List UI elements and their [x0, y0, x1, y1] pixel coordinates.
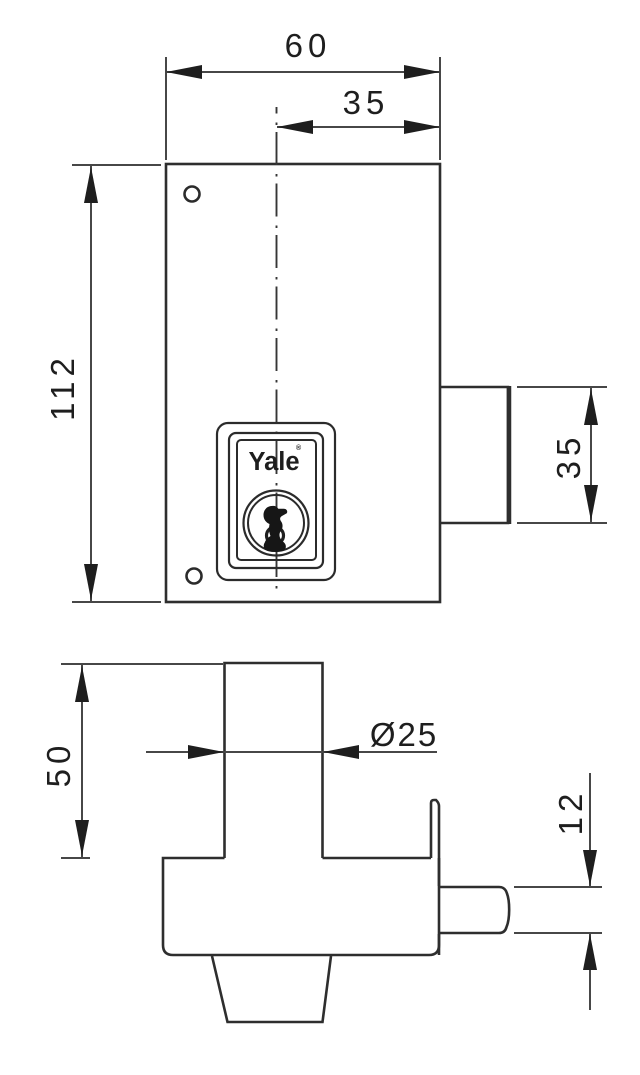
svg-text:35: 35	[343, 84, 390, 121]
dimension diameter 25: line	[146, 751, 437, 753]
side view cylinder tube	[225, 663, 323, 858]
svg-text:50: 50	[40, 741, 77, 788]
Yale plate inner	[237, 440, 316, 560]
dimension 112: line	[90, 166, 92, 601]
dimension diameter 25: left arrow	[188, 745, 224, 759]
svg-text:Ø25: Ø25	[370, 716, 438, 753]
latch bolt face (thick edge)	[507, 386, 512, 524]
dimension 35 top: line	[277, 126, 440, 128]
cylinder inner circle	[248, 495, 304, 551]
svg-text:®: ®	[296, 444, 302, 452]
dimension 112: extension lines	[72, 164, 161, 166]
dimension 12: lower line	[589, 934, 591, 1010]
side view body	[163, 858, 439, 955]
side view body top edge right segment	[323, 857, 432, 860]
dimension 50: bottom arrow	[75, 820, 89, 856]
dimension 60: right arrow	[404, 65, 440, 79]
dimension 112: bottom arrow	[84, 564, 98, 600]
dimension 35 right: extension lines	[517, 386, 607, 388]
key silhouette wavy body	[264, 506, 288, 552]
dimension 35 top: right arrow	[404, 120, 440, 134]
dimension 12: lower arrow	[583, 934, 597, 970]
dimension 50: extension lines	[61, 663, 223, 665]
dimension 60: line	[166, 71, 440, 73]
dimension diameter 25: right arrow	[323, 745, 359, 759]
svg-text:12: 12	[552, 789, 589, 836]
svg-text:Yale: Yale	[248, 448, 299, 476]
side view cylinder bulge trapezoid	[212, 956, 331, 1022]
side view faceplate lower edge	[438, 934, 441, 955]
dimension 60: extension lines	[165, 57, 167, 160]
lock body front view outline	[166, 164, 440, 602]
dimension 35 right: bottom arrow	[584, 485, 598, 521]
dimension 35 right: top arrow	[584, 389, 598, 425]
centerline (dash-dot)	[276, 107, 278, 593]
svg-text:60: 60	[285, 27, 332, 64]
dimension 35 right: line	[590, 388, 592, 522]
dimension 12: extension lines	[514, 886, 602, 888]
dimension 50: line	[81, 665, 83, 857]
cylinder outer circle	[244, 491, 309, 556]
side view latch bolt	[439, 887, 509, 933]
dimension 112: top arrow	[84, 167, 98, 203]
key silhouette ring	[267, 527, 284, 544]
dimension 12: upper arrow	[583, 850, 597, 886]
dimension 50: top arrow	[75, 666, 89, 702]
dimension 60: left arrow	[166, 65, 202, 79]
svg-text:112: 112	[44, 353, 81, 421]
Yale plate outer	[217, 423, 335, 580]
dimension 35 top: left arrow	[277, 120, 313, 134]
Yale plate middle	[229, 433, 323, 568]
screw hole bottom	[187, 569, 202, 584]
dimension 12: upper line	[589, 773, 591, 886]
screw hole top	[185, 187, 200, 202]
side view faceplate tab	[431, 800, 439, 886]
svg-text:35: 35	[550, 433, 587, 480]
latch bolt front view	[440, 387, 508, 523]
